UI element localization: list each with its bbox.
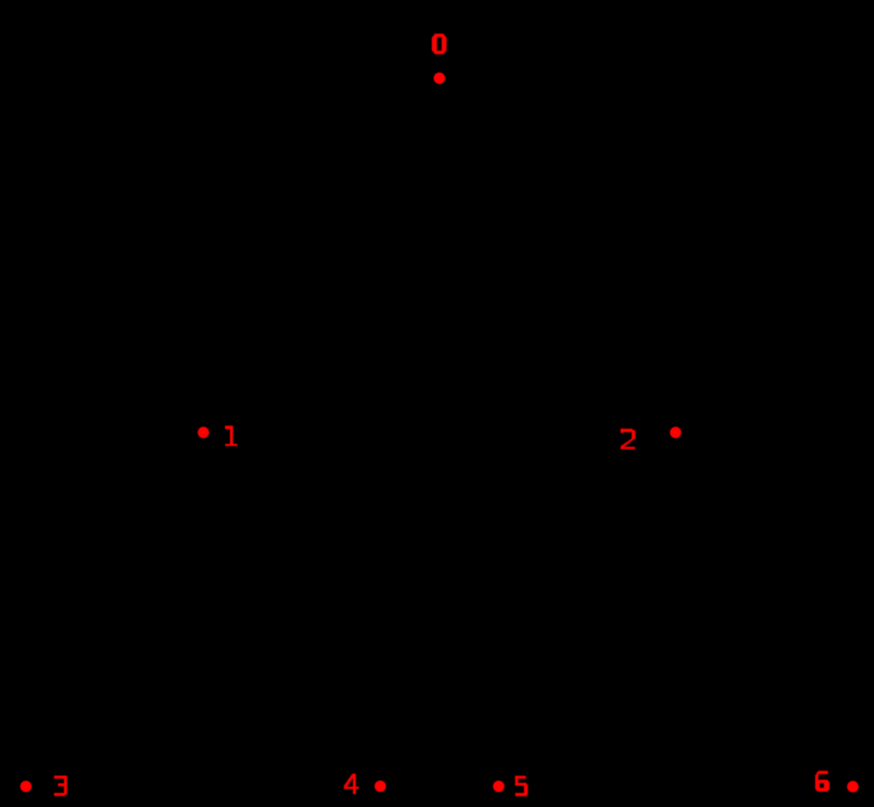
node 4 label "4": [344, 774, 359, 795]
node 0 dot: [434, 73, 445, 84]
node 3 label "3": [54, 776, 67, 796]
node 1 label "1": [225, 426, 237, 446]
node 4 dot: [375, 781, 386, 792]
node 1 dot: [198, 427, 209, 438]
node 3 dot: [20, 781, 31, 792]
node 5 dot: [493, 781, 504, 792]
node 2 dot: [670, 427, 681, 438]
node 6 dot: [847, 781, 858, 792]
node 5 label "5": [515, 776, 528, 796]
node 6 label "6": [815, 771, 829, 792]
node 0 label "0": [432, 34, 447, 55]
node 2 label "2": [621, 429, 636, 449]
